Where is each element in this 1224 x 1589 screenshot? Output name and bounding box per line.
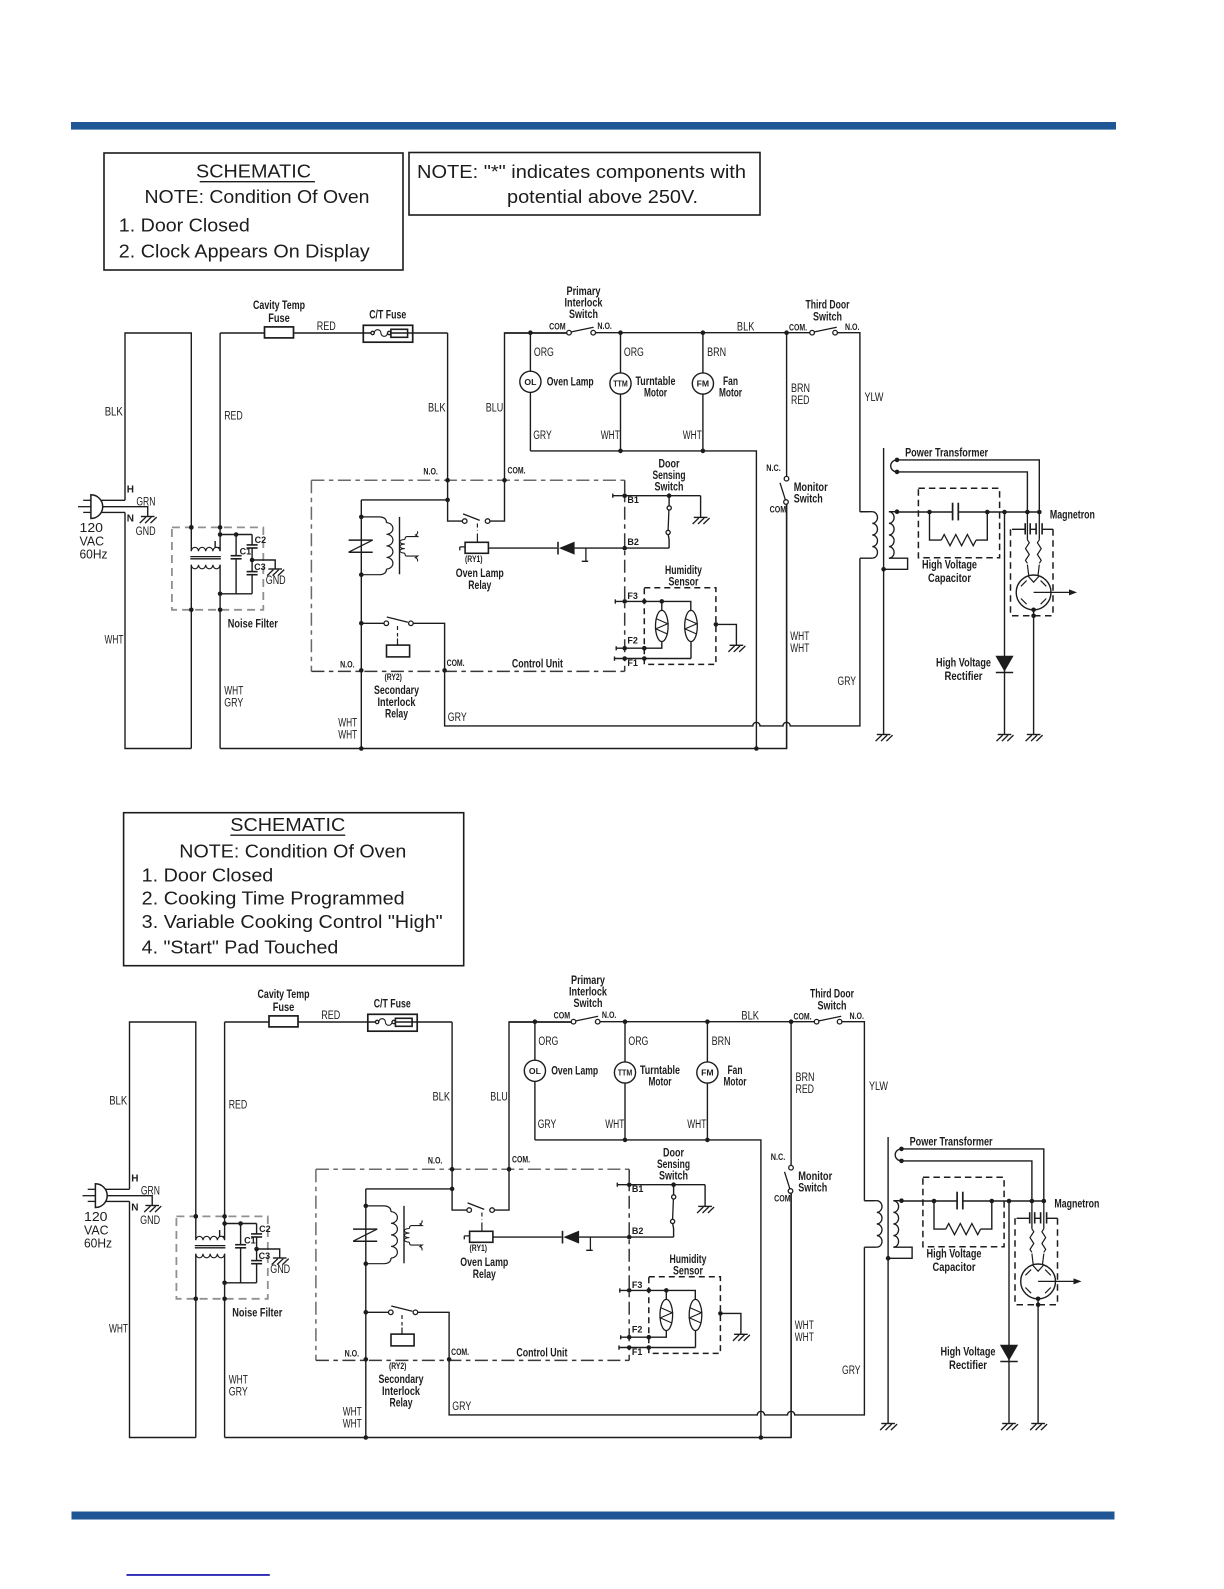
node door sensing branch [671, 1182, 676, 1187]
magnetron tube V1 [1021, 1264, 1056, 1299]
oven lamp OL [534, 1022, 536, 1060]
svg-text:L: L [218, 1229, 224, 1240]
svg-text:Motor: Motor [724, 1077, 747, 1089]
node filament top [899, 1147, 904, 1152]
relay RY1 contact [448, 480, 463, 521]
svg-text:TTM: TTM [613, 380, 628, 389]
svg-text:OL: OL [529, 1066, 541, 1076]
power transformer core [887, 1137, 889, 1424]
node transformer core-secondary [881, 567, 886, 572]
svg-text:WHT: WHT [683, 430, 702, 442]
wire F2 [616, 646, 644, 650]
inductor L core [195, 1245, 226, 1247]
svg-text:Interlock: Interlock [382, 1386, 420, 1398]
node LVT primary top [359, 515, 364, 520]
svg-text:N.O.: N.O. [340, 660, 355, 671]
node LVT primary bottom [359, 572, 364, 577]
node element1 top [660, 599, 665, 604]
svg-text:B2: B2 [632, 1226, 644, 1236]
node RY1 COM. [502, 478, 507, 483]
LVT primary winding [366, 1206, 391, 1212]
svg-text:WHT: WHT [605, 1119, 624, 1131]
node C-branch top [218, 532, 223, 537]
svg-text:N.O.: N.O. [597, 321, 612, 332]
node noise filter top-left border [194, 1214, 199, 1219]
ground humidity sensor [730, 644, 744, 646]
node door sensing branch [667, 493, 672, 498]
node filament bottom [899, 1159, 904, 1164]
capacitor C1 [240, 1224, 242, 1245]
fuse C/T fuse [368, 1014, 417, 1031]
wire rail fuse to BLK drop [391, 332, 448, 334]
svg-text:COM.: COM. [789, 322, 807, 333]
svg-text:OL: OL [524, 377, 536, 387]
node F1 border [622, 656, 627, 661]
node bus LVT [359, 746, 364, 751]
svg-text:Switch: Switch [659, 1171, 688, 1183]
svg-text:BLU: BLU [486, 403, 504, 415]
capacitor C2 [251, 535, 253, 545]
relay RY1 contact [452, 1169, 467, 1210]
svg-text:Magnetron: Magnetron [1054, 1199, 1099, 1211]
AC plug P1 [95, 1184, 107, 1208]
node F3 border [627, 1288, 632, 1293]
node turntable branch [623, 1019, 628, 1024]
svg-text:Relay: Relay [473, 1269, 496, 1281]
node HV secondary top [899, 1198, 904, 1203]
svg-text:COM.: COM. [794, 1011, 812, 1022]
svg-text:N.C.: N.C. [771, 1152, 786, 1163]
inductor L top winding [196, 1236, 225, 1240]
svg-text:Cavity Temp: Cavity Temp [258, 989, 310, 1001]
svg-text:BLK: BLK [741, 1011, 759, 1023]
svg-text:C3: C3 [259, 1251, 271, 1261]
node filament line 2 [1037, 510, 1042, 515]
svg-text:Rectifier: Rectifier [949, 1360, 987, 1372]
wire bottom neutral bus [220, 504, 787, 748]
svg-text:BLK: BLK [109, 1096, 127, 1108]
bleeder resistor [930, 512, 942, 540]
svg-text:Fan: Fan [728, 1065, 743, 1077]
svg-text:60Hz: 60Hz [80, 547, 108, 561]
node RY2 N.O. [359, 668, 364, 673]
svg-text:60Hz: 60Hz [84, 1236, 112, 1250]
diode high voltage rectifier [1000, 1345, 1018, 1361]
node HV rectifier branch [1002, 510, 1007, 515]
svg-text:Oven Lamp: Oven Lamp [460, 1257, 508, 1269]
node F2 border [627, 1335, 632, 1340]
wire F1 [615, 657, 692, 661]
node bus fan riser [754, 746, 759, 751]
svg-text:C2: C2 [259, 1224, 271, 1234]
svg-text:SCHEMATIC: SCHEMATIC [196, 162, 311, 182]
svg-text:COM: COM [770, 505, 787, 516]
power transformer filament winding [895, 1149, 901, 1161]
svg-text:WHT: WHT [109, 1324, 128, 1336]
wire HV rectifier branch [1004, 512, 1006, 735]
svg-text:2. Clock Appears On Display: 2. Clock Appears On Display [119, 242, 370, 262]
svg-text:N.O.: N.O. [602, 1010, 617, 1021]
node C-branch top [222, 1221, 227, 1226]
node F2 box [647, 1335, 652, 1340]
node filament line 1 [1030, 1199, 1035, 1204]
node HVC left [932, 1199, 937, 1204]
node third-door COM [789, 1019, 794, 1024]
node filament bottom [895, 470, 900, 475]
node HVC right [990, 1199, 995, 1204]
svg-text:Relay: Relay [390, 1397, 413, 1409]
wire HV line right [958, 511, 1041, 513]
wire BLU drop [505, 333, 567, 480]
svg-text:3. Variable Cooking Control "H: 3. Variable Cooking Control "High" [142, 912, 443, 932]
svg-text:Sensor: Sensor [669, 577, 699, 589]
node B1 [627, 1182, 632, 1187]
node B2 [622, 546, 627, 551]
svg-text:GRY: GRY [448, 712, 467, 724]
svg-text:Switch: Switch [574, 998, 603, 1010]
inductor L bottom winding [196, 1254, 225, 1258]
wire humidity ground branch [720, 1313, 741, 1334]
node magnetron box bottom [1036, 1303, 1041, 1308]
power transformer filament winding [891, 460, 897, 472]
svg-text:BLK: BLK [433, 1092, 451, 1104]
svg-text:GRN: GRN [136, 497, 155, 509]
svg-text:(RY2): (RY2) [384, 672, 402, 683]
svg-text:COM.: COM. [451, 1347, 469, 1358]
magnetron filament heater [1026, 540, 1030, 564]
svg-text:Switch: Switch [794, 494, 823, 506]
svg-text:N.O.: N.O. [345, 1349, 360, 1360]
svg-text:WHT: WHT [790, 643, 809, 655]
svg-text:H: H [127, 485, 134, 496]
door sensing switch S1 [668, 496, 670, 506]
svg-text:Motor: Motor [719, 388, 742, 400]
svg-text:Interlock: Interlock [565, 297, 603, 309]
svg-text:4. "Start" Pad Touched: 4. "Start" Pad Touched [142, 938, 339, 958]
wire F2 [621, 1335, 649, 1339]
fan motor FM [706, 1022, 708, 1062]
svg-text:Humidity: Humidity [670, 1254, 707, 1266]
svg-text:RED: RED [791, 395, 810, 407]
svg-text:N.O.: N.O. [850, 1011, 865, 1022]
wire filament through feed-through [1026, 512, 1028, 540]
bleeder resistor [934, 1201, 946, 1229]
node C-branch bottom [218, 592, 223, 597]
ground HV rectifier [1002, 1423, 1016, 1425]
door sensing switch S1 [673, 1185, 675, 1195]
node HVC right [985, 510, 990, 515]
node C1 top [238, 1221, 243, 1226]
wire RED between fuses [294, 332, 372, 334]
LVT primary vertical [365, 1189, 367, 1438]
svg-text:L: L [214, 540, 220, 551]
node F1 border [627, 1345, 632, 1350]
svg-text:(RY1): (RY1) [465, 554, 483, 565]
power transformer T1 secondary [889, 512, 894, 559]
node filament line 1 [1025, 510, 1030, 515]
switch monitor [790, 1022, 792, 1166]
svg-text:Oven Lamp: Oven Lamp [456, 568, 504, 580]
wire humidity ground branch [716, 624, 737, 645]
LVT core [403, 1206, 405, 1263]
svg-text:Monitor: Monitor [798, 1171, 832, 1183]
capacitor HV C [952, 503, 954, 521]
svg-text:ORG: ORG [538, 1036, 558, 1048]
svg-text:C2: C2 [255, 535, 267, 545]
ground transformer [877, 734, 891, 736]
wire magnetron to ground [1037, 1299, 1039, 1424]
node LVT primary bottom [364, 1261, 369, 1266]
wire filament leads [897, 460, 1039, 512]
svg-text:WHT: WHT [601, 430, 620, 442]
node RY1 N.O. [445, 478, 450, 483]
node third-door COM [784, 330, 789, 335]
svg-text:B1: B1 [632, 1184, 644, 1194]
ground HV rectifier [998, 734, 1012, 736]
power transformer T1 secondary [893, 1201, 898, 1248]
wire door-sense ground drop [704, 1185, 706, 1207]
wire third door N.O. to YLW drop [837, 333, 860, 512]
svg-text:COM: COM [774, 1194, 791, 1205]
svg-text:COM.: COM. [508, 466, 526, 477]
svg-text:WHT: WHT [229, 1375, 248, 1387]
svg-text:N.O.: N.O. [845, 322, 860, 333]
wire HV line [902, 1200, 958, 1202]
svg-text:BRN: BRN [712, 1036, 731, 1048]
node humidity ground branch [714, 622, 719, 627]
svg-text:120: 120 [80, 521, 104, 535]
svg-text:(RY2): (RY2) [389, 1361, 407, 1372]
wire B1 [613, 494, 701, 498]
wire plug ground lead GRN [107, 1196, 152, 1206]
svg-text:WHT: WHT [338, 730, 357, 742]
wire door-sense ground drop [700, 496, 702, 518]
control unit dash-dot enclosure [311, 480, 624, 671]
wire diode to B2 [575, 547, 670, 549]
svg-text:BLK: BLK [428, 403, 446, 415]
node noise filter top-left [189, 525, 194, 530]
wire BLK drop to relay N.O. [447, 333, 449, 480]
svg-text:NOTE: "*" indicates components: NOTE: "*" indicates components with [417, 162, 746, 182]
fan motor FM [702, 333, 704, 373]
magnetron dashed enclosure [1015, 1218, 1058, 1305]
wire third door N.O. to YLW drop [842, 1022, 865, 1201]
node RY2 left [359, 621, 364, 626]
node noise filter top-right [222, 1214, 227, 1219]
node humidity ground branch [718, 1311, 723, 1316]
svg-text:Noise Filter: Noise Filter [228, 618, 278, 630]
wire capacitor branch top [220, 534, 252, 536]
svg-text:WHT: WHT [343, 1407, 362, 1419]
svg-text:GRY: GRY [452, 1401, 471, 1413]
svg-text:FM: FM [701, 1068, 714, 1078]
fuse cavity temp [265, 327, 294, 338]
fuse C/T fuse [363, 325, 412, 342]
relay RY1 mechanical link [476, 524, 478, 532]
LVT secondary winding [405, 531, 418, 539]
wire HV line right [963, 1200, 1046, 1202]
node rail FM [701, 449, 706, 454]
humidity sensor element 2 [685, 610, 698, 641]
node magnetron cathode [1031, 608, 1036, 613]
svg-text:N: N [131, 1203, 138, 1214]
LVT primary vertical [360, 500, 362, 749]
wire RY1 coil to diode [488, 547, 557, 549]
schematic 2 : cooking condition [83, 975, 1100, 1440]
node magnetron box bottom [1031, 614, 1036, 619]
svg-text:WHT: WHT [224, 686, 243, 698]
svg-text:GRY: GRY [842, 1365, 861, 1377]
svg-text:COM.: COM. [512, 1155, 530, 1166]
wire noise filter left lower lead [190, 565, 192, 749]
wire BLK drop to relay N.O. [451, 1022, 453, 1169]
switch monitor [786, 333, 788, 477]
svg-text:Humidity: Humidity [665, 565, 702, 577]
svg-text:C/T Fuse: C/T Fuse [374, 998, 411, 1010]
humidity sensor element 2 [689, 1299, 702, 1330]
wire WHT neutral left riser and bottom run [130, 1201, 196, 1437]
svg-text:120: 120 [84, 1210, 108, 1224]
node F3 border [622, 599, 627, 604]
node bus fan riser [759, 1435, 764, 1440]
fuse cavity temp [269, 1016, 298, 1027]
svg-text:Motor: Motor [649, 1077, 672, 1089]
svg-text:WHT: WHT [795, 1332, 814, 1344]
node noise filter bottom-right border [218, 608, 223, 613]
node noise filter bottom-left border [194, 1297, 199, 1302]
svg-text:Door: Door [663, 1148, 684, 1160]
svg-text:WHT: WHT [790, 631, 809, 643]
svg-text:WHT: WHT [687, 1119, 706, 1131]
power transformer core [883, 448, 885, 735]
wire WHT neutral left riser and bottom run [125, 512, 191, 748]
power transformer T1 primary [860, 511, 869, 513]
svg-text:Capacitor: Capacitor [928, 573, 971, 585]
svg-text:Sensing: Sensing [657, 1159, 690, 1171]
wire rail BLU to interlock [509, 1021, 571, 1023]
diode D1 [557, 542, 559, 555]
diode high voltage rectifier [995, 656, 1013, 672]
node fan branch [705, 1019, 710, 1024]
node HV secondary top [895, 509, 900, 514]
node rail TTM [618, 449, 623, 454]
relay RY2 mechanical link [397, 626, 399, 637]
svg-text:Switch: Switch [818, 1000, 847, 1012]
svg-text:F3: F3 [627, 591, 638, 601]
ground noise filter GND [273, 1257, 287, 1259]
svg-text:1. Door Closed: 1. Door Closed [142, 866, 274, 886]
ground magnetron [1027, 734, 1041, 736]
magnetron tube V1 [1016, 575, 1051, 610]
ground humidity sensor [734, 1333, 748, 1335]
svg-text:H: H [131, 1174, 138, 1185]
wire F3 [615, 599, 691, 610]
svg-text:Control Unit: Control Unit [512, 659, 563, 671]
svg-text:Relay: Relay [468, 580, 491, 592]
high voltage capacitor dashed enclosure [918, 488, 999, 558]
noise filter dashed enclosure [172, 527, 263, 609]
node turntable branch [618, 330, 623, 335]
svg-text:Cavity Temp: Cavity Temp [253, 300, 305, 312]
node RY1 branch [450, 1187, 455, 1192]
svg-text:Interlock: Interlock [569, 986, 607, 998]
wire GRY return (RY2 COM to transformer) [449, 1247, 864, 1415]
wire RED riser (noise filter to fuse rail) [219, 333, 221, 551]
svg-text:B2: B2 [627, 537, 639, 547]
svg-text:Switch: Switch [798, 1183, 827, 1195]
wire F1 [619, 1346, 696, 1350]
relay RY1 coil [460, 547, 465, 551]
svg-text:RED: RED [317, 321, 336, 333]
ground noise filter GND [268, 568, 282, 570]
svg-text:GRY: GRY [838, 676, 857, 688]
node filament line 2 [1042, 1199, 1047, 1204]
svg-text:F2: F2 [632, 1325, 643, 1335]
varistor across LVT primary [353, 1228, 377, 1230]
capacitor C3 [251, 560, 253, 572]
relay RY2 coil [387, 645, 410, 657]
node B2 [627, 1235, 632, 1240]
oven lamp OL [529, 333, 531, 372]
node B1 [622, 493, 627, 498]
svg-text:High Voltage: High Voltage [936, 658, 991, 670]
wire RED between fuses [298, 1021, 376, 1023]
svg-text:Fan: Fan [723, 376, 738, 388]
node noise filter bottom-left border [189, 608, 194, 613]
wire top-left loop (BLK hot riser to noise filter) [130, 1022, 196, 1240]
node rail FM [705, 1138, 710, 1143]
svg-text:C3: C3 [254, 562, 266, 572]
relay RY1 coil [464, 1236, 469, 1240]
node C1 top [234, 532, 239, 537]
svg-text:Relay: Relay [385, 708, 408, 720]
wire LVT feed [366, 1188, 452, 1190]
svg-text:2. Cooking Time Programmed: 2. Cooking Time Programmed [142, 889, 405, 909]
svg-text:F1: F1 [627, 658, 638, 668]
svg-text:N.C.: N.C. [766, 463, 781, 474]
feed-through capacitors [1017, 1217, 1030, 1219]
humidity sensor dashed enclosure [644, 588, 716, 665]
relay RY2 contact [366, 1311, 389, 1313]
svg-text:RED: RED [224, 411, 243, 423]
node oven lamp branch [533, 1019, 538, 1024]
svg-text:Interlock: Interlock [378, 697, 416, 709]
wire noise filter ground branch [252, 560, 275, 569]
humidity sensor dashed enclosure [649, 1277, 721, 1354]
svg-text:Sensor: Sensor [673, 1266, 703, 1278]
svg-text:GRY: GRY [533, 430, 552, 442]
svg-text:F3: F3 [632, 1280, 643, 1290]
svg-text:NOTE: Condition Of Oven: NOTE: Condition Of Oven [145, 187, 370, 207]
ground plug GND [141, 516, 155, 518]
node HVC left [927, 510, 932, 515]
node noise filter top-right [218, 525, 223, 530]
node LVT primary top [364, 1204, 369, 1209]
svg-text:WHT: WHT [105, 635, 124, 647]
wire GRY return (RY2 COM to transformer) [445, 558, 860, 726]
svg-text:FM: FM [697, 379, 710, 389]
svg-text:Control Unit: Control Unit [516, 1348, 567, 1360]
node F2 box [642, 646, 647, 651]
node HV rectifier branch [1007, 1199, 1012, 1204]
wire HV rectifier branch [1008, 1201, 1010, 1424]
svg-text:WHT: WHT [795, 1320, 814, 1332]
humidity sensor element 1 [665, 1290, 667, 1299]
node RY1 COM. [507, 1167, 512, 1172]
svg-text:GND: GND [140, 1215, 160, 1227]
wire capacitor branch bottom [225, 1282, 257, 1284]
svg-text:ORG: ORG [624, 347, 644, 359]
